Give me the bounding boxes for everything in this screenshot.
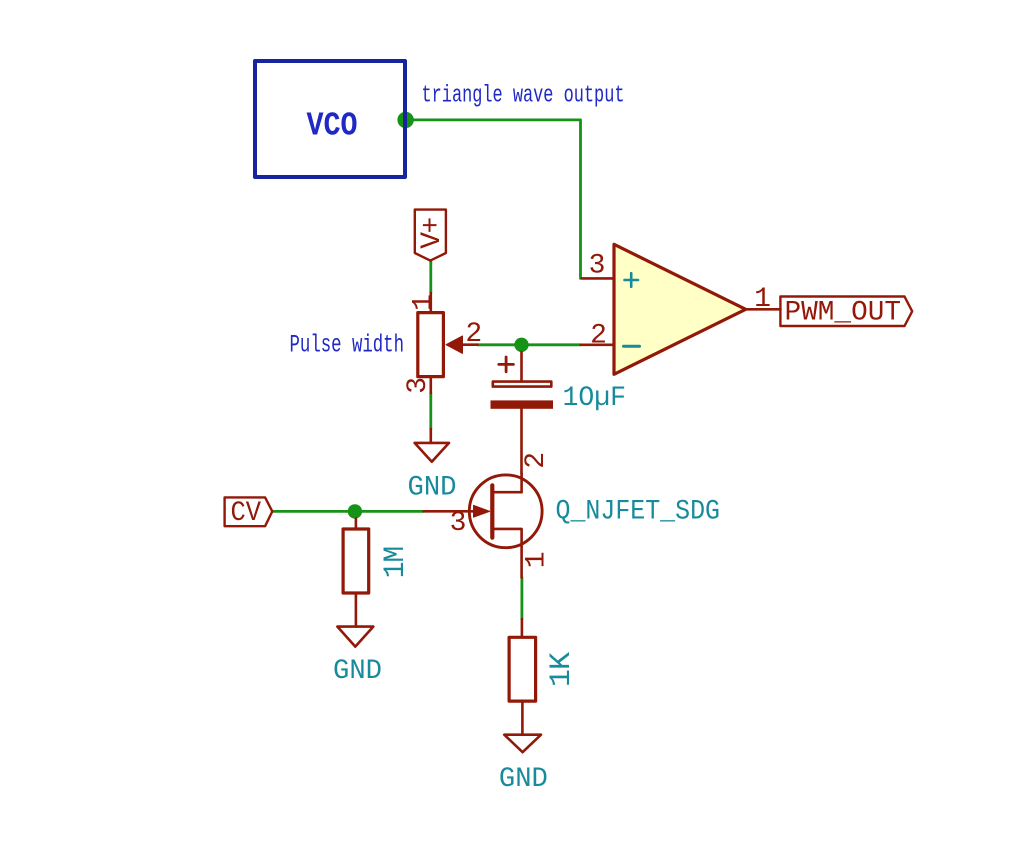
svg-text:3: 3 xyxy=(589,251,605,282)
svg-text:PWM_OUT: PWM_OUT xyxy=(785,298,902,329)
svg-text:2: 2 xyxy=(521,453,552,469)
svg-text:GND: GND xyxy=(408,473,457,504)
svg-text:triangle wave output: triangle wave output xyxy=(422,83,625,110)
svg-text:1M: 1M xyxy=(379,547,413,579)
svg-text:3: 3 xyxy=(450,508,466,539)
svg-text:1OµF: 1OµF xyxy=(563,383,627,414)
svg-text:GND: GND xyxy=(499,764,548,795)
svg-text:1K: 1K xyxy=(545,652,579,687)
svg-text:Pulse width: Pulse width xyxy=(290,331,405,360)
svg-text:2: 2 xyxy=(465,319,481,350)
svg-text:GND: GND xyxy=(333,656,382,687)
svg-text:3: 3 xyxy=(403,378,434,394)
svg-text:Q_NJFET_SDG: Q_NJFET_SDG xyxy=(556,497,721,528)
svg-text:1: 1 xyxy=(754,284,770,315)
svg-text:CV: CV xyxy=(231,498,262,529)
svg-text:V+: V+ xyxy=(417,218,448,249)
svg-text:1: 1 xyxy=(409,295,440,311)
svg-text:VCO: VCO xyxy=(307,108,358,145)
svg-text:2: 2 xyxy=(590,321,606,352)
svg-text:1: 1 xyxy=(522,552,553,568)
